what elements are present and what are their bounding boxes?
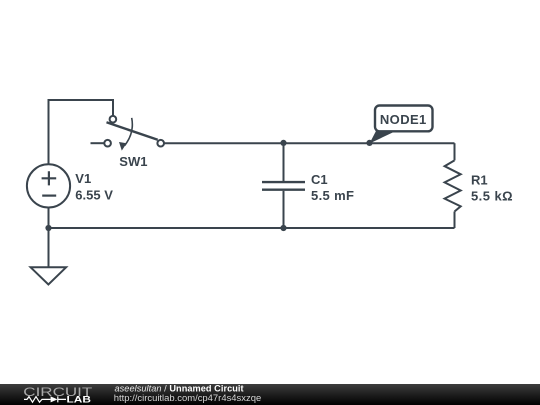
NODE1 pointer tail: [370, 130, 399, 144]
resistor R1: [445, 160, 513, 211]
switch SW1 pole terminal: [110, 116, 117, 123]
switch SW1 motion arc arrow: [125, 118, 133, 146]
svg-text:5.5 kΩ: 5.5 kΩ: [471, 189, 513, 204]
svg-text:aseelsultan / Unnamed Circuit: aseelsultan / Unnamed Circuit: [115, 383, 244, 393]
switch SW1: [91, 116, 165, 169]
NODE1 box: [375, 106, 433, 132]
svg-text:http://circuitlab.com/cp47r4s4: http://circuitlab.com/cp47r4s4sxzqe: [114, 393, 261, 404]
switch SW1 left throw terminal: [104, 140, 111, 147]
switch SW1 blade: [107, 122, 158, 140]
wire down to switch pole: [112, 99, 114, 116]
junction dot at V1 bottom: [45, 225, 51, 231]
C1 top plate: [262, 181, 305, 183]
switch SW1 left throw stub wire: [91, 142, 105, 144]
wire V1 bottom to ground: [48, 208, 50, 268]
svg-text:SW1: SW1: [119, 154, 147, 169]
junction dot at capacitor bottom: [280, 225, 286, 231]
wire bottom rail: [49, 227, 455, 229]
V1 minus sign: [42, 195, 56, 197]
node NODE1 callout: [370, 106, 433, 144]
logo diode: [51, 396, 58, 402]
wire right vertical to resistor: [454, 143, 456, 160]
logo resistor squiggle: [24, 397, 51, 403]
wire capacitor bottom lead: [283, 191, 285, 228]
CircuitLab logo wordmark: [23, 385, 93, 405]
wire capacitor top lead: [283, 143, 285, 181]
C1 bottom plate: [262, 188, 305, 190]
wire switch to right rail: [164, 142, 455, 144]
svg-text:V1: V1: [75, 171, 91, 186]
ground: [31, 267, 67, 284]
wire resistor bottom lead: [454, 212, 456, 229]
footer bar: [0, 384, 540, 405]
capacitor C1: [262, 172, 354, 203]
V1 plus sign: [42, 171, 57, 185]
svg-text:LAB: LAB: [67, 394, 92, 404]
svg-text:C1: C1: [311, 172, 328, 187]
voltage source V1: [27, 164, 113, 207]
svg-text:6.55 V: 6.55 V: [75, 188, 113, 203]
junction dot at capacitor top: [280, 140, 286, 146]
wire left vertical from top corner to V1: [48, 99, 50, 165]
switch SW1 right throw terminal: [157, 140, 164, 147]
svg-text:5.5 mF: 5.5 mF: [311, 188, 354, 203]
svg-text:R1: R1: [471, 172, 488, 187]
wire top-left horizontal: [48, 99, 114, 101]
junction dot at NODE1: [366, 140, 372, 146]
svg-text:NODE1: NODE1: [380, 112, 427, 127]
